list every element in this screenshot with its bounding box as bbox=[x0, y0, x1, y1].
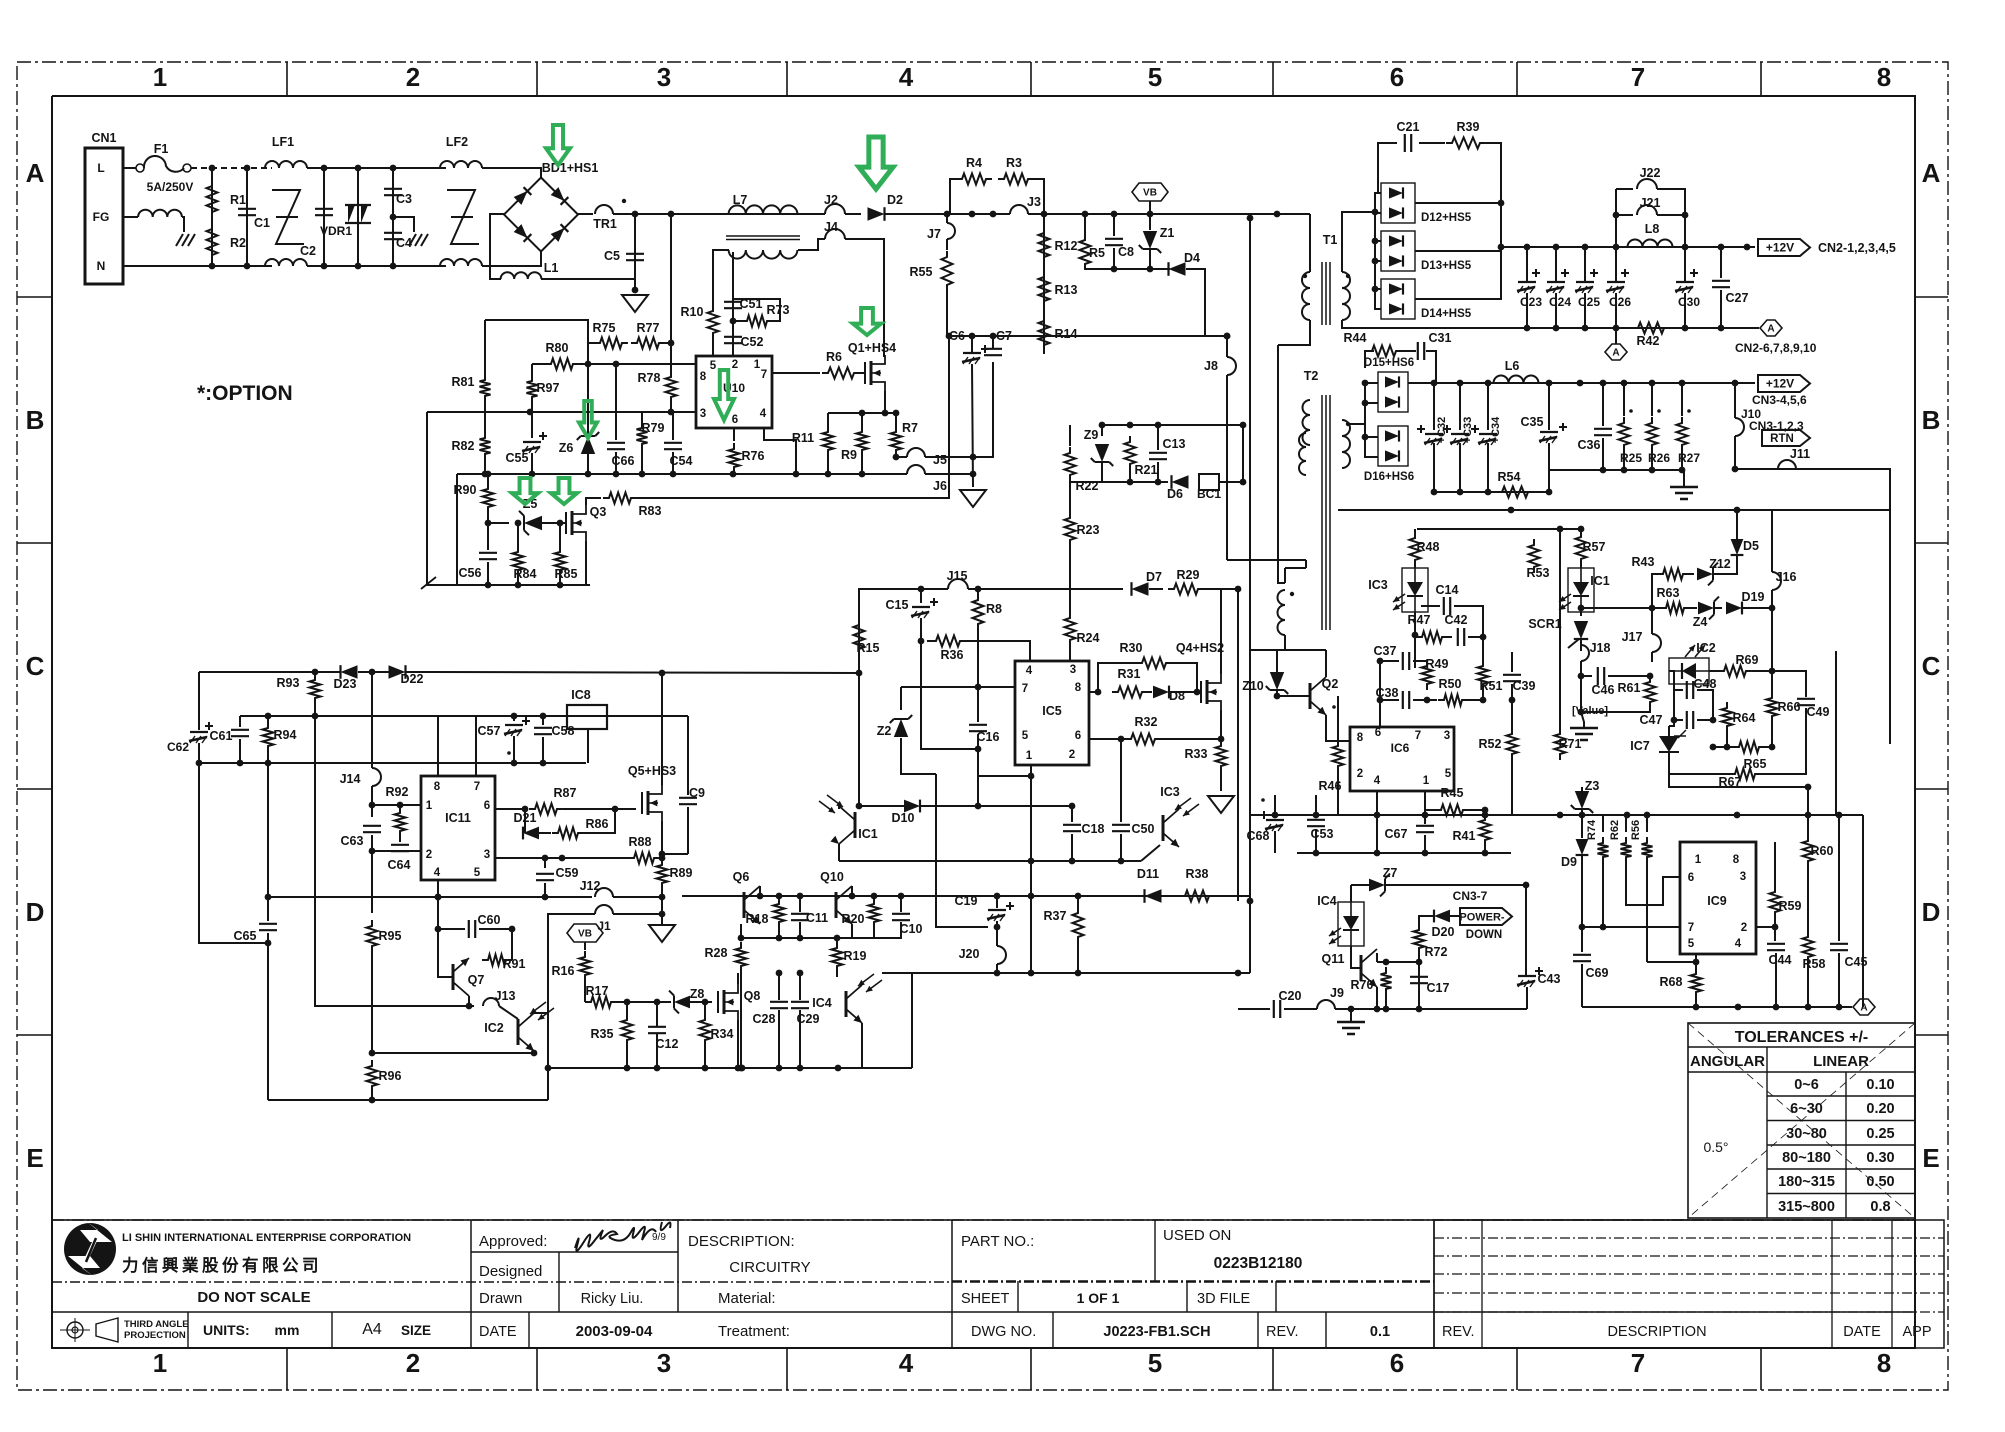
diode D21 bbox=[523, 827, 539, 840]
wire bbox=[1765, 746, 1772, 748]
svg-text:Q7: Q7 bbox=[468, 973, 485, 987]
zener Z1 bbox=[1143, 231, 1157, 249]
svg-text:1: 1 bbox=[153, 62, 167, 92]
revision table box bbox=[1434, 1220, 1944, 1348]
zone tick top bbox=[786, 62, 788, 96]
wire Q5 src bbox=[661, 821, 663, 854]
zone tick top bbox=[1760, 62, 1762, 96]
wire L dashed bbox=[191, 167, 272, 169]
svg-text:D5: D5 bbox=[1743, 539, 1759, 553]
wire bbox=[1695, 998, 1697, 1007]
resistor R81 bbox=[480, 374, 491, 402]
svg-text:SHEET: SHEET bbox=[961, 1291, 1009, 1307]
junction bbox=[1600, 924, 1607, 931]
junction bbox=[1374, 1006, 1381, 1013]
svg-text:B: B bbox=[1922, 405, 1941, 435]
svg-text:R24: R24 bbox=[1077, 631, 1100, 645]
wire T1 sec btm bbox=[1342, 320, 1347, 328]
svg-text:+12V: +12V bbox=[1766, 377, 1794, 391]
wire C5 bbox=[634, 214, 636, 290]
wire under R5 bbox=[1085, 268, 1170, 270]
junction bbox=[1600, 380, 1607, 387]
resistor R92 bbox=[395, 807, 406, 837]
capacitor (electrolytic) bbox=[1425, 433, 1443, 435]
wire bbox=[1774, 918, 1776, 941]
svg-text:R47: R47 bbox=[1408, 613, 1431, 627]
wire 815 rail bbox=[1250, 814, 1511, 816]
wire bbox=[1548, 443, 1550, 492]
wire C39 btm bbox=[1511, 684, 1513, 700]
junction bbox=[1374, 850, 1381, 857]
capacitor C56 bbox=[479, 553, 497, 559]
svg-text:Z9: Z9 bbox=[1084, 428, 1099, 442]
svg-text:R83: R83 bbox=[639, 504, 662, 518]
wire bbox=[1616, 188, 1633, 190]
wire bbox=[656, 1002, 658, 1027]
wire bbox=[1581, 712, 1584, 728]
svg-text:D16+HS6: D16+HS6 bbox=[1364, 471, 1414, 483]
resistor R60 bbox=[1803, 835, 1814, 867]
resistor R87 bbox=[529, 804, 563, 815]
svg-text:CN1: CN1 bbox=[91, 131, 116, 145]
capacitor C10 bbox=[892, 914, 910, 920]
svg-text:R35: R35 bbox=[591, 1027, 614, 1041]
svg-text:Z4: Z4 bbox=[1693, 615, 1708, 629]
resistor R74 bbox=[1598, 837, 1609, 863]
svg-text:R68: R68 bbox=[1660, 975, 1683, 989]
junction bbox=[1734, 812, 1741, 819]
svg-text:R59: R59 bbox=[1779, 899, 1802, 913]
wire IC4 top bbox=[1350, 885, 1352, 902]
wire J14 col bbox=[371, 672, 373, 768]
wire bbox=[431, 672, 433, 673]
svg-text:4: 4 bbox=[1735, 938, 1742, 950]
svg-text:R85: R85 bbox=[555, 567, 578, 581]
slash mark bbox=[421, 577, 436, 589]
wire C30 bbox=[1684, 247, 1686, 281]
svg-text:7: 7 bbox=[1415, 730, 1421, 742]
junction bbox=[1482, 807, 1489, 814]
T2 winding aux bbox=[1278, 590, 1285, 635]
svg-text:315~800: 315~800 bbox=[1778, 1199, 1835, 1215]
svg-text:R1: R1 bbox=[230, 193, 246, 207]
choke LF1 core bbox=[272, 190, 304, 244]
inductor L8 bbox=[1628, 240, 1673, 248]
junction bbox=[659, 851, 666, 858]
resistor R17 bbox=[585, 997, 617, 1008]
svg-text:R65: R65 bbox=[1744, 757, 1767, 771]
wire to IC11 pin8 bbox=[437, 716, 439, 776]
capacitor C50 bbox=[1112, 825, 1130, 831]
zone tick bottom bbox=[536, 1348, 538, 1390]
title block outline bbox=[52, 1220, 1915, 1348]
wire bbox=[1414, 529, 1416, 532]
wire J5 to C7 bbox=[925, 362, 993, 457]
junction bbox=[994, 970, 1001, 977]
capacitor C51 bbox=[724, 302, 742, 308]
svg-text:Approved:: Approved: bbox=[479, 1233, 547, 1250]
capacitor C35 (electrolytic) bbox=[1540, 431, 1558, 433]
diode D23 bbox=[341, 665, 358, 679]
svg-text:A4: A4 bbox=[362, 1321, 382, 1338]
svg-text:L8: L8 bbox=[1645, 222, 1660, 236]
junction bbox=[557, 582, 564, 589]
junction bbox=[1679, 467, 1686, 474]
resistor R26 bbox=[1647, 417, 1658, 451]
svg-text:R91: R91 bbox=[503, 957, 526, 971]
bridge diode bbox=[514, 224, 532, 242]
wire bbox=[836, 972, 838, 977]
svg-text:C45: C45 bbox=[1845, 955, 1868, 969]
dot mark bbox=[1261, 798, 1265, 802]
wire D7 bbox=[1052, 588, 1123, 590]
diode D2 bbox=[868, 207, 885, 221]
junction bbox=[849, 893, 856, 900]
MOSFET Q8 bbox=[717, 991, 719, 1013]
svg-text:Z12: Z12 bbox=[1709, 557, 1731, 571]
junction bbox=[1431, 489, 1438, 496]
wire C68 bbox=[1274, 795, 1276, 818]
diode D15 b bbox=[1385, 396, 1399, 407]
wire bbox=[239, 739, 241, 763]
jumper J9 bbox=[1317, 1000, 1335, 1009]
junction bbox=[1082, 211, 1089, 218]
svg-text:力信興業股份有限公司: 力信興業股份有限公司 bbox=[122, 1255, 322, 1275]
wire R1R2 bbox=[211, 168, 213, 266]
wire 529 bbox=[1417, 528, 1581, 530]
inductor bbox=[265, 259, 307, 266]
cell divider bbox=[1186, 1281, 1188, 1312]
wire J6 out bbox=[925, 473, 973, 475]
wire R72 dn bbox=[1418, 954, 1420, 1009]
junction bbox=[797, 970, 804, 977]
junction bbox=[1372, 209, 1379, 216]
wire bbox=[1652, 607, 1667, 609]
capacitor C3 bbox=[384, 189, 402, 195]
wire level3 bbox=[199, 762, 586, 764]
capacitor C37 bbox=[1403, 652, 1409, 670]
wire dn to D10 line bbox=[977, 776, 979, 806]
dot mark bbox=[1687, 409, 1691, 413]
junction bbox=[1372, 238, 1379, 245]
ground (earth) bbox=[1337, 1022, 1365, 1034]
power flag RTN bbox=[1762, 430, 1810, 446]
diode D16 a bbox=[1385, 430, 1399, 441]
junction bbox=[1649, 467, 1656, 474]
wire bbox=[1580, 565, 1582, 568]
wire bbox=[712, 339, 714, 356]
svg-text:SIZE: SIZE bbox=[401, 1323, 431, 1338]
svg-text:R82: R82 bbox=[452, 439, 475, 453]
wire level4 bbox=[268, 896, 592, 898]
revision row line bbox=[1434, 1273, 1944, 1275]
svg-text:CN3-4,5,6: CN3-4,5,6 bbox=[1752, 393, 1807, 407]
svg-text:C8: C8 bbox=[1118, 245, 1134, 259]
junction bbox=[970, 454, 977, 461]
IC IC9 bbox=[1680, 842, 1756, 954]
row line bbox=[471, 1251, 678, 1253]
wire bbox=[1077, 943, 1079, 973]
wire R81 col bbox=[484, 320, 486, 377]
wire bbox=[1069, 546, 1071, 612]
junction bbox=[1553, 244, 1560, 251]
wire C7 bbox=[992, 336, 994, 348]
wire bbox=[1338, 509, 1511, 511]
svg-text:7: 7 bbox=[1688, 922, 1694, 934]
capacitor (electrolytic) bbox=[1451, 433, 1469, 435]
resistor R86 bbox=[552, 828, 584, 839]
junction bbox=[994, 924, 1001, 931]
svg-text:R88: R88 bbox=[629, 835, 652, 849]
svg-text:R79: R79 bbox=[642, 421, 665, 435]
junction bbox=[369, 1097, 376, 1104]
svg-text:UNITS:: UNITS: bbox=[203, 1322, 250, 1338]
capacitor C5 bbox=[626, 254, 644, 260]
wire pin1 bbox=[372, 804, 421, 806]
wire bbox=[1223, 424, 1243, 426]
inductor bbox=[440, 259, 482, 266]
wire bbox=[1511, 509, 1737, 511]
svg-text:2: 2 bbox=[1357, 768, 1363, 780]
wire R44 loop bbox=[1365, 351, 1374, 368]
resistor R90 bbox=[483, 483, 494, 513]
jumper J15 bbox=[948, 579, 968, 589]
svg-text:RTN: RTN bbox=[1770, 433, 1794, 445]
T2 primary winding bbox=[1303, 400, 1311, 445]
wire bbox=[1482, 637, 1484, 660]
svg-text:CN2-6,7,8,9,10: CN2-6,7,8,9,10 bbox=[1735, 341, 1817, 355]
junction bbox=[511, 713, 518, 720]
junction bbox=[1582, 325, 1589, 332]
wire bbox=[1581, 885, 1583, 927]
svg-text:R45: R45 bbox=[1441, 786, 1464, 800]
net flag A bbox=[1760, 320, 1782, 336]
svg-text:R97: R97 bbox=[537, 381, 560, 395]
svg-text:R37: R37 bbox=[1044, 909, 1067, 923]
capacitor C30 (electrolytic) bbox=[1676, 281, 1694, 283]
resistor R48 bbox=[1410, 532, 1421, 566]
svg-text:1: 1 bbox=[1423, 775, 1430, 787]
diode D16 b bbox=[1385, 450, 1399, 461]
wire bbox=[1709, 670, 1718, 672]
row line bbox=[952, 1280, 1434, 1282]
svg-text:DESCRIPTION: DESCRIPTION bbox=[1607, 1324, 1706, 1340]
svg-text:C7: C7 bbox=[996, 329, 1012, 343]
wire bus2 bbox=[1028, 213, 1310, 215]
wire bbox=[704, 1046, 706, 1068]
wire D14 in bbox=[1375, 212, 1381, 309]
svg-text:C18: C18 bbox=[1082, 822, 1105, 836]
junction bbox=[1235, 970, 1242, 977]
wire C51 chain bbox=[732, 252, 734, 356]
zener Z6 bbox=[581, 436, 595, 454]
svg-text:C13: C13 bbox=[1163, 437, 1186, 451]
junction bbox=[1422, 850, 1429, 857]
svg-text:LINEAR: LINEAR bbox=[1813, 1053, 1869, 1070]
junction bbox=[1621, 380, 1628, 387]
wire bbox=[1580, 676, 1582, 712]
junction bbox=[1247, 215, 1254, 222]
wire bbox=[799, 896, 801, 912]
junction bbox=[882, 410, 889, 417]
jumper J5 bbox=[907, 448, 925, 457]
wire C63 bbox=[371, 805, 373, 817]
wire pin7 line bbox=[1582, 926, 1680, 928]
wire bridge out bbox=[578, 213, 593, 215]
junction bbox=[659, 670, 666, 677]
wire Q4 src bbox=[1220, 710, 1222, 739]
svg-text:R57: R57 bbox=[1583, 540, 1606, 554]
resistor R46 bbox=[1333, 740, 1344, 772]
wire bbox=[1581, 787, 1583, 791]
resistor R62 bbox=[1621, 837, 1632, 863]
junction bbox=[542, 855, 549, 862]
wire bbox=[704, 1002, 706, 1014]
svg-text:IC2: IC2 bbox=[1696, 641, 1716, 655]
junction bbox=[355, 165, 362, 172]
svg-text:E: E bbox=[1922, 1143, 1939, 1173]
wire C34 bbox=[1487, 383, 1489, 430]
svg-text:D19: D19 bbox=[1742, 590, 1765, 604]
zone tick right bbox=[1915, 788, 1948, 790]
wire bbox=[895, 456, 897, 457]
wire A flag bbox=[1615, 328, 1617, 344]
wire C28 bbox=[778, 973, 780, 1000]
wire pin6 bbox=[495, 808, 525, 810]
wire pin2 bbox=[1756, 926, 1775, 928]
svg-text:7: 7 bbox=[474, 781, 480, 793]
junction bbox=[1693, 1004, 1700, 1011]
svg-text:SCR1: SCR1 bbox=[1528, 617, 1561, 631]
wire T2 aux top bbox=[1284, 568, 1286, 583]
wire bbox=[1697, 690, 1713, 720]
wire C25 bbox=[1584, 247, 1586, 281]
wire C20 in bbox=[1238, 1008, 1270, 1010]
bridge diode bbox=[551, 187, 569, 205]
junction bbox=[244, 263, 251, 270]
wire bbox=[539, 832, 551, 834]
svg-text:80~180: 80~180 bbox=[1782, 1150, 1831, 1166]
wire bbox=[1838, 953, 1840, 1007]
junction bbox=[482, 471, 489, 478]
svg-text:2: 2 bbox=[426, 849, 432, 861]
wire bbox=[1720, 290, 1722, 328]
junction bbox=[668, 340, 675, 347]
svg-text:2: 2 bbox=[406, 62, 420, 92]
junction bbox=[196, 760, 203, 767]
svg-text:Q2: Q2 bbox=[1322, 677, 1339, 691]
wire right vert bbox=[1889, 510, 1891, 744]
svg-text:5: 5 bbox=[474, 867, 481, 879]
resistor R20 bbox=[869, 898, 880, 928]
ground (chassis) bbox=[409, 234, 416, 246]
svg-text:1: 1 bbox=[426, 800, 433, 812]
wire C30 dn bbox=[1684, 293, 1686, 328]
resistor R4 bbox=[956, 174, 992, 185]
wire J10 bbox=[1734, 383, 1736, 418]
junction bbox=[918, 638, 925, 645]
wire bbox=[587, 454, 589, 474]
wire Z10 to Q2 bbox=[1277, 691, 1310, 696]
capacitor C63 bbox=[363, 826, 381, 832]
wire Z6 top bbox=[587, 364, 589, 436]
wire to D15 bbox=[1348, 383, 1378, 424]
junction bbox=[1744, 244, 1751, 251]
wire R95 col bbox=[371, 851, 373, 913]
svg-text:6: 6 bbox=[1390, 62, 1404, 92]
svg-text:C: C bbox=[26, 651, 45, 681]
svg-text:3: 3 bbox=[700, 408, 706, 420]
wire bbox=[661, 897, 663, 914]
wire IC3 join bbox=[1141, 845, 1160, 861]
junction bbox=[1649, 380, 1656, 387]
junction bbox=[757, 893, 764, 900]
net flag A bbox=[1853, 999, 1875, 1015]
wire pin8 bbox=[1089, 691, 1098, 693]
junction bbox=[1457, 489, 1464, 496]
wire bbox=[1424, 835, 1426, 853]
wire bbox=[656, 1033, 658, 1068]
junction bbox=[668, 409, 675, 416]
junction bbox=[825, 471, 832, 478]
jumper J17 bbox=[1652, 634, 1661, 652]
MOSFET Q5+HS3 bbox=[641, 792, 643, 814]
resistor R38 bbox=[1179, 891, 1215, 902]
svg-text:4: 4 bbox=[899, 62, 914, 92]
wire cluster top bbox=[485, 320, 588, 364]
svg-text:VB: VB bbox=[1143, 188, 1157, 199]
wire bbox=[690, 1001, 705, 1003]
svg-text:180~315: 180~315 bbox=[1778, 1174, 1835, 1190]
wire T2 aux bbox=[1278, 345, 1285, 583]
junction bbox=[321, 165, 328, 172]
zener Z7 bbox=[1369, 879, 1385, 892]
green arrow marker bbox=[546, 125, 570, 165]
wire bbox=[996, 921, 998, 946]
junction bbox=[485, 471, 492, 478]
capacitor C15 (electrolytic) bbox=[912, 606, 930, 608]
title col divider bbox=[951, 1220, 953, 1348]
wire R62 dn bbox=[1625, 863, 1627, 877]
junction bbox=[1485, 380, 1492, 387]
inductor L7 core bbox=[726, 236, 800, 240]
wire R4 branch bbox=[950, 179, 956, 214]
capacitor C17 bbox=[1410, 977, 1428, 983]
choke LF2 core bbox=[447, 190, 479, 244]
wire R28 dn bbox=[740, 972, 742, 1068]
wire bbox=[1580, 612, 1582, 616]
wire bbox=[513, 736, 515, 763]
T2 primary winding 2 bbox=[1299, 433, 1306, 475]
wire Q11 emitter bbox=[1376, 987, 1378, 1009]
svg-text:C52: C52 bbox=[741, 335, 764, 349]
wire bbox=[665, 342, 671, 344]
capacitor C29 bbox=[791, 1002, 809, 1008]
svg-text:C1: C1 bbox=[254, 216, 270, 230]
wire IC4 em bbox=[862, 1023, 912, 1068]
IC IC7 (shunt ref) bbox=[1659, 736, 1679, 752]
wire D23 line bbox=[199, 671, 340, 673]
junction bbox=[1524, 325, 1531, 332]
junction bbox=[1553, 325, 1560, 332]
wire bbox=[542, 716, 544, 725]
wire bbox=[531, 403, 533, 412]
junction bbox=[1710, 717, 1717, 724]
wire bbox=[1365, 402, 1378, 404]
IC U10 bbox=[696, 356, 772, 428]
wire J7 bbox=[946, 214, 948, 223]
junction bbox=[1805, 812, 1812, 819]
